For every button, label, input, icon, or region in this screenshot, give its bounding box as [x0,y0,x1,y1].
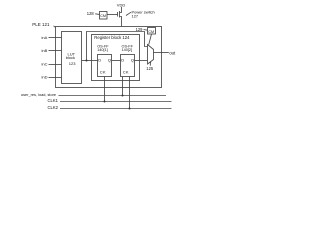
wire user_res load store bus [59,95,167,97]
svg-text:CK: CK [123,69,129,74]
svg-text:user_res, load, store: user_res, load, store [21,93,56,97]
svg-text:inC: inC [42,62,48,67]
svg-text:CK: CK [100,69,106,74]
svg-text:D: D [98,58,101,63]
OS-FF 140[1] [98,55,112,77]
leader 128 to CM128 [95,13,99,16]
svg-text:CLK2: CLK2 [48,105,59,110]
svg-text:Register block 124: Register block 124 [94,35,130,40]
leader PLE 121 to box corner [54,26,56,28]
node CLK1 junction [104,101,106,103]
wire FF2 store to user_res bus [122,77,124,96]
wire CLK1 bus [60,101,172,103]
svg-text:PLE 121: PLE 121 [32,22,50,27]
svg-text:129: 129 [136,27,144,32]
wire transistor drain to PLE top [120,17,122,27]
svg-text:out: out [169,50,176,55]
wire mux out [154,52,169,54]
wire FF1 CK to CLK1 [104,77,106,102]
wire FF2 Q to mux [135,60,148,62]
PLE 121 outer box [56,27,162,88]
svg-text:123: 123 [69,61,76,66]
transistor Q127 channel [119,11,121,18]
wire inC [49,64,62,66]
svg-text:inA: inA [42,35,48,40]
multiplexer U125 [148,45,154,65]
svg-text:Q: Q [131,58,134,63]
wire CM128 to gate [107,14,118,16]
svg-text:CM: CM [100,14,106,18]
CM 128 box [100,12,108,20]
leader 129 to CM129 [144,29,148,32]
CM 129 box [148,28,156,35]
wire inB [49,50,62,52]
wire CM129 to mux select [149,34,152,45]
leader power switch label [126,12,131,15]
svg-text:127: 127 [132,14,139,19]
svg-text:128: 128 [87,11,95,16]
wire CLK2 bus [60,108,172,110]
svg-text:140[1]: 140[1] [97,48,108,52]
svg-text:Q: Q [108,58,111,63]
LUT block 123 [62,32,82,84]
wire bypass LUT to mux [87,32,148,61]
OS-FF 140[2] [121,55,135,77]
transistor Q127 gate bar [117,12,119,17]
wire inA [49,37,62,39]
svg-text:140[2]: 140[2] [122,48,133,52]
wire FF2 CK to CLK2 [129,77,131,109]
svg-text:block: block [66,55,75,60]
node user_res junction [122,95,124,97]
wire VDD to transistor source [120,7,122,13]
node CLK2 junction [129,108,131,110]
svg-text:D: D [121,58,124,63]
node bypass tap [86,60,88,62]
leader 125 to mux [149,62,151,66]
svg-text:CM: CM [148,30,154,34]
svg-text:inB: inB [42,48,48,53]
svg-text:125: 125 [146,66,154,71]
svg-text:CLK1: CLK1 [48,98,59,103]
wire FF1 Q to FF2 D [112,60,121,62]
wire LUT out to FF1 D [82,60,98,62]
svg-text:VDD: VDD [117,3,126,8]
register block 124 [92,35,140,81]
svg-text:inD: inD [42,75,48,80]
wire inD [49,77,62,79]
